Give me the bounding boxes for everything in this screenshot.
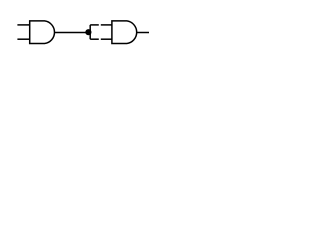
wire input A of gate U1 — [17, 24, 29, 26]
pin input A of gate U2 — [101, 24, 112, 26]
and-gate U2 — [112, 21, 137, 44]
wire branch to U2 input B — [90, 38, 99, 40]
wire branch to U2 input A — [90, 24, 99, 26]
wire vertical branch at junction — [89, 25, 91, 39]
wire input B of gate U1 — [17, 38, 29, 40]
wire U1 output to junction — [54, 32, 90, 34]
node junction dot — [85, 29, 91, 35]
wire U2 output — [136, 32, 149, 34]
and-gate U1 — [30, 21, 55, 44]
pin input B of gate U2 — [101, 38, 112, 40]
